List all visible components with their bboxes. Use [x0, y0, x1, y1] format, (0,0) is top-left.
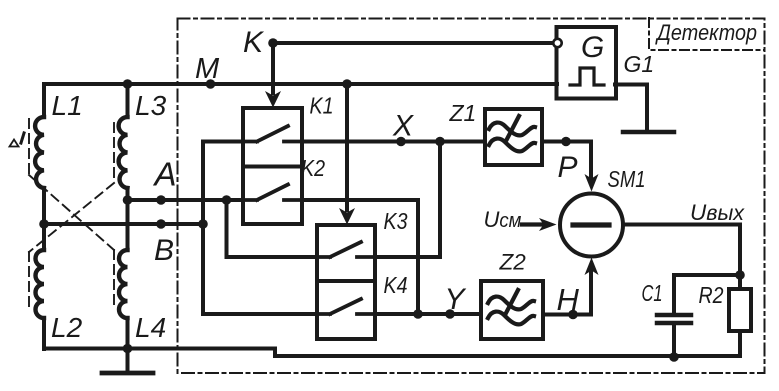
wire: node A tap from L3/L4 midpoint: [128, 198, 244, 202]
Детектор sub-box (dash-dot): [649, 18, 765, 50]
wire: A branch down to K3: [227, 200, 318, 257]
detector enclosure frame (dash-dot): [178, 19, 765, 374]
junction dot A tap: [123, 195, 133, 205]
svg-text:B: B: [154, 234, 174, 267]
svg-text:K4: K4: [384, 272, 408, 298]
inductor L3: [119, 117, 128, 188]
pulse symbol in G: [570, 68, 604, 85]
arrowhead into SM1 bottom: [585, 258, 599, 276]
svg-text:Детектор: Детектор: [654, 20, 757, 45]
label delta-l: [10, 140, 19, 147]
svg-text:H: H: [557, 282, 580, 317]
junction dot L4 bottom: [123, 344, 133, 354]
junction dot K2/Y: [413, 309, 423, 319]
svg-text:M: M: [195, 53, 220, 85]
junction dot C1 bottom: [669, 352, 679, 362]
wire: SM1 output Uvyh: [624, 225, 740, 290]
svg-text:A: A: [153, 156, 177, 193]
coupling diagonal L3-L2: [29, 183, 114, 252]
svg-text:K2: K2: [301, 155, 325, 181]
node dot L3 top: [123, 79, 133, 89]
coupling dash line left of L3: [113, 123, 115, 183]
svg-text:K: K: [243, 26, 265, 59]
inductor L1: [35, 117, 44, 188]
relay box K3/K4: [317, 225, 375, 339]
wire: vertical bus x=203 (B to K1/K4): [201, 142, 205, 315]
junction dot M to K3: [342, 79, 352, 89]
node H dot: [568, 310, 578, 320]
node P dot: [561, 137, 571, 147]
svg-text:Uсм: Uсм: [484, 207, 522, 232]
arrowhead into K1: [265, 91, 281, 108]
coupling dash line left of L2: [28, 252, 30, 310]
relay box K1/K2: [243, 108, 302, 224]
svg-text:SM1: SM1: [608, 166, 646, 192]
mixer SM1 bar: [573, 222, 609, 227]
wire: Y line K4 output to Z2: [375, 312, 481, 316]
wire: K2 output down to Y: [302, 200, 418, 314]
wire: K3 output up to X: [375, 142, 440, 258]
junction dot X/K3: [435, 137, 445, 147]
wire: C1 bottom lead: [672, 323, 676, 357]
generator box G: [557, 27, 617, 99]
ground bar under L4: [102, 371, 153, 376]
arrowhead into K3: [339, 208, 355, 225]
filter box Z1: [485, 109, 542, 165]
node Y dot: [445, 309, 455, 319]
wire: C1 branch: [674, 275, 740, 315]
mixer SM1 circle: [560, 194, 623, 257]
switch K2: [243, 185, 302, 201]
wire: bottom rail: [44, 349, 740, 357]
svg-text:Y: Y: [445, 283, 467, 316]
svg-text:K3: K3: [384, 208, 408, 234]
wire: L1/L2 left vertical: [42, 84, 46, 349]
arrowhead into SM1 top: [585, 174, 599, 192]
wire: K1 left stub: [203, 140, 243, 144]
svg-text:K1: K1: [310, 93, 334, 119]
wire: node B tap from L1/L2 midpoint: [44, 222, 203, 226]
divider K3/K4: [317, 279, 375, 283]
ground bar for G1: [623, 130, 674, 135]
wire: K arrow into K1: [271, 43, 275, 93]
wire: M rail: [44, 82, 557, 86]
wire: G output to ground: [615, 85, 647, 131]
coupling diagonal L1-L4: [29, 175, 114, 250]
capacitor C1 plates: [657, 315, 691, 323]
inductor L4: [119, 250, 128, 318]
arrowhead Ucm into SM1 left: [539, 218, 557, 231]
svg-text:G: G: [581, 31, 604, 64]
junction dot B bus: [198, 219, 208, 229]
svg-text:L1: L1: [52, 90, 83, 121]
wire: Z1 to P to SM1 top: [542, 142, 591, 182]
switch K3: [317, 242, 375, 257]
wire: Ucm arrow shaft: [522, 222, 542, 226]
divider K1/K2: [243, 165, 302, 169]
wire: Z2 to H to SM1 bottom: [543, 272, 591, 315]
wire: L4 to ground: [126, 349, 130, 373]
svg-text:Z1: Z1: [449, 100, 477, 126]
wire: L3/L4 vertical: [126, 84, 130, 349]
wire: K4 left feed: [203, 312, 317, 316]
node A dot: [156, 195, 166, 205]
coupling dash line left of L4: [113, 250, 115, 310]
svg-text:R2: R2: [699, 282, 724, 308]
junction dot A-K3 branch: [222, 195, 232, 205]
svg-text:P: P: [558, 151, 578, 184]
switch K1: [243, 126, 302, 142]
filter symbol Z1: [489, 116, 535, 151]
svg-text:C1: C1: [642, 280, 663, 306]
svg-text:L4: L4: [135, 312, 166, 343]
wire: K control line: [273, 41, 551, 45]
junction dot C1/R2: [735, 270, 745, 280]
wire: X line K1 output to Z1: [302, 140, 485, 144]
svg-text:Uвых: Uвых: [690, 200, 745, 225]
node K dot: [268, 38, 278, 48]
node M dot: [206, 79, 216, 89]
svg-text:L2: L2: [51, 312, 83, 343]
terminal circle on G: [553, 39, 561, 47]
resistor R2: [729, 289, 751, 331]
svg-text:X: X: [392, 110, 414, 143]
inductor L2: [36, 250, 45, 318]
node X dot: [396, 137, 406, 147]
coupling dash line left of L1: [28, 119, 30, 175]
filter box Z2: [481, 281, 543, 339]
filter symbol Z2: [488, 290, 534, 324]
svg-text:L3: L3: [135, 90, 167, 121]
switch K4: [317, 299, 375, 314]
node B dot: [156, 219, 166, 229]
svg-text:G1: G1: [624, 51, 655, 77]
svg-text:Z2: Z2: [499, 250, 527, 275]
wire: M junction arrow into K3: [345, 84, 349, 210]
junction dot B tap: [39, 219, 49, 229]
wire: R2 bottom lead: [738, 331, 742, 356]
